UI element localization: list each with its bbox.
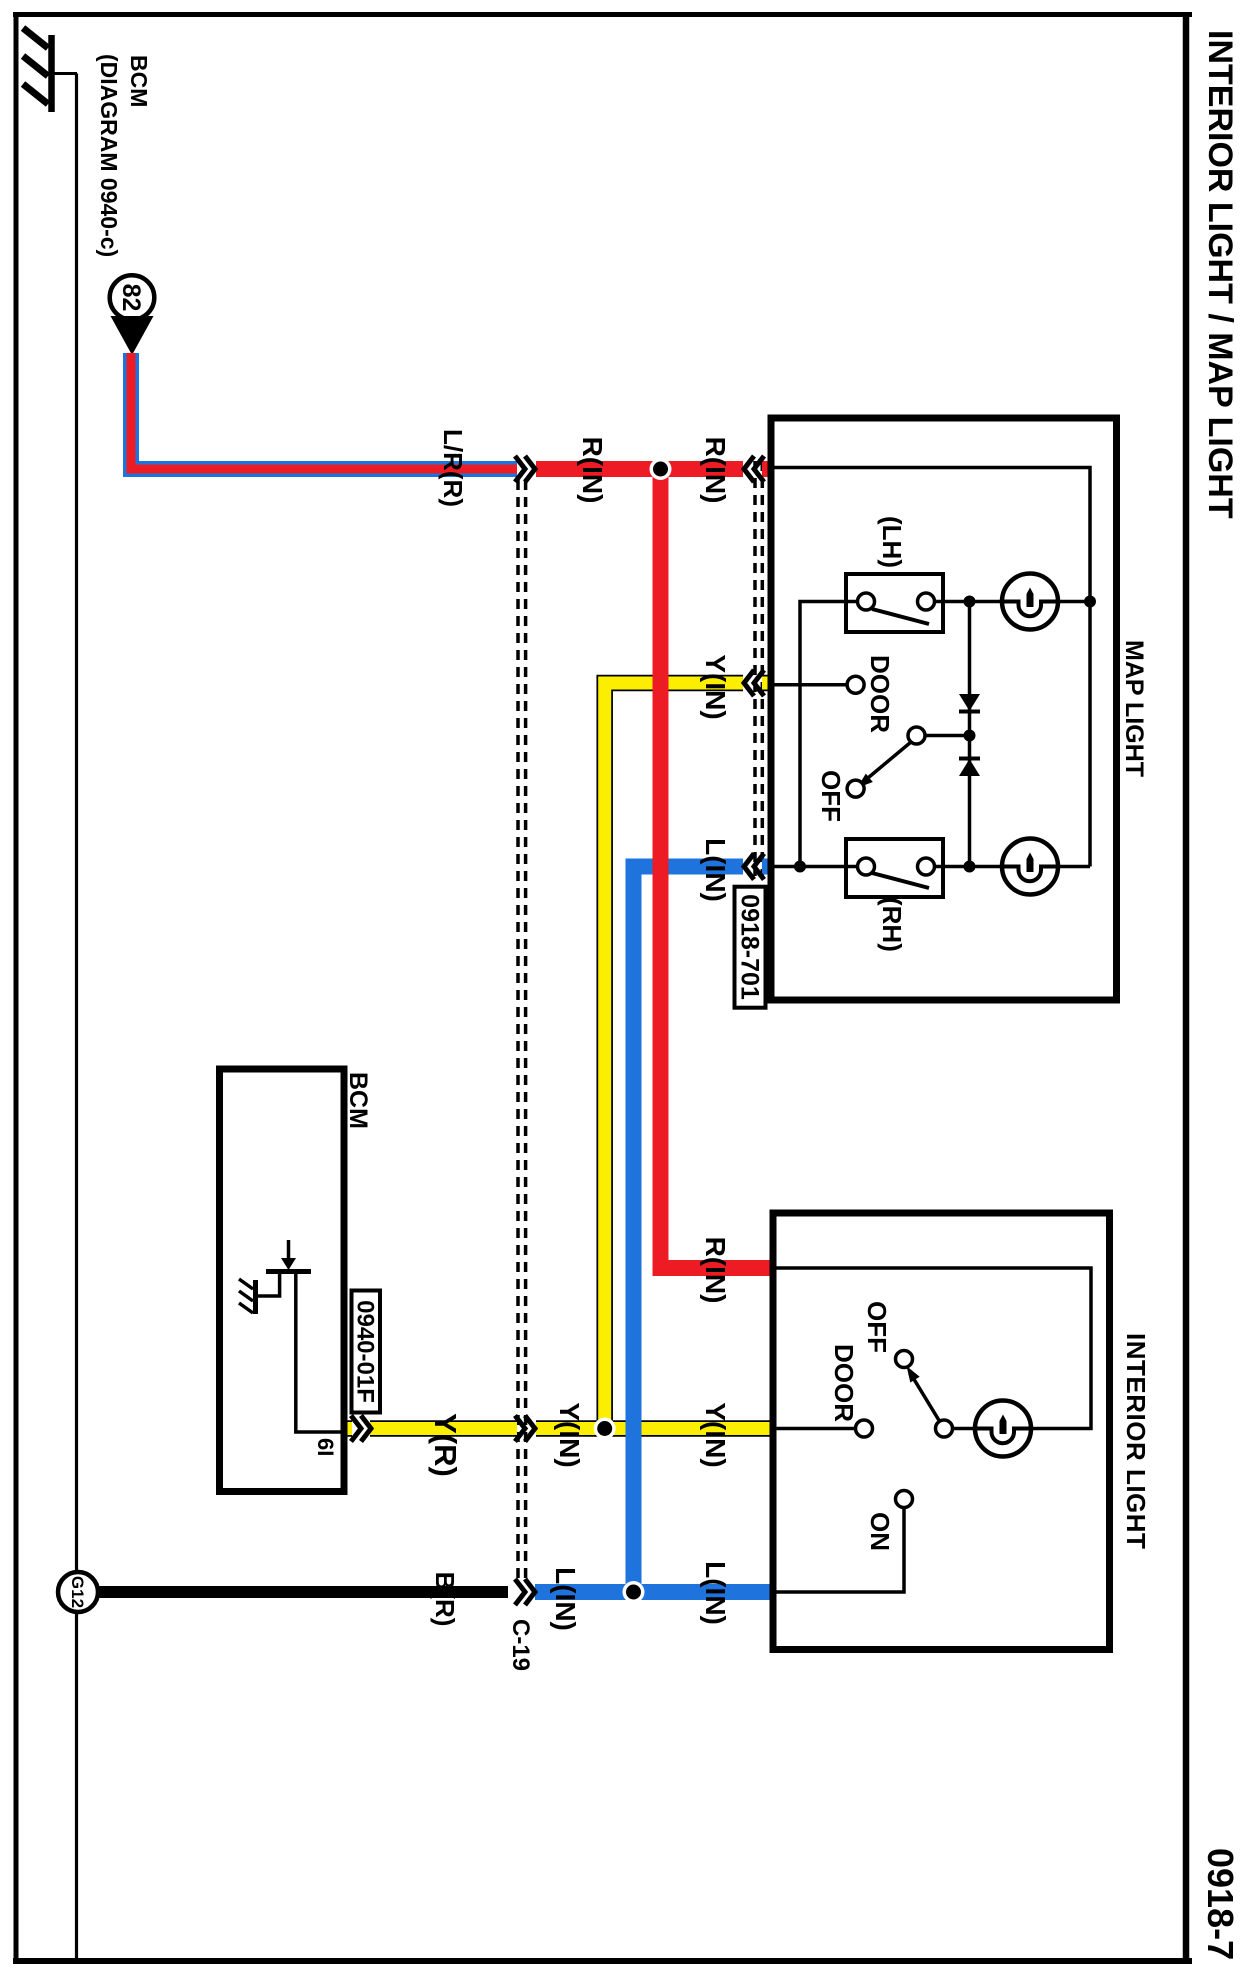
- svg-text:BCM: BCM: [126, 55, 152, 107]
- svg-text:(RH): (RH): [877, 897, 907, 952]
- node 82 circled pin number: [110, 275, 155, 320]
- svg-text:C-19: C-19: [507, 1619, 534, 1671]
- node junction dot on blue wire: [623, 1581, 645, 1603]
- diode D2 (cathode left, toward center): [959, 759, 980, 777]
- svg-text:L(IN): L(IN): [550, 1567, 581, 1631]
- wire R(IN) red branch to INTERIOR LIGHT box: [661, 469, 779, 1268]
- component box MAP LIGHT: [771, 418, 1117, 1000]
- border frame right edge: [13, 1958, 1192, 1964]
- svg-text:OFF: OFF: [862, 1301, 892, 1353]
- node G12 ground point circle: [58, 1572, 98, 1612]
- wire L(IN) blue branch to MAP LIGHT box: [634, 867, 773, 1593]
- wire internal: RH lamp branch: [775, 865, 1091, 869]
- connector chevron at BCM pin 6I on yellow wire: [351, 1416, 371, 1442]
- node junction dot on yellow wire: [594, 1418, 616, 1440]
- BCM internal output driver arrow and bar: [266, 1240, 311, 1272]
- component box INTERIOR LIGHT: [773, 1213, 1110, 1650]
- svg-text:L/R(R): L/R(R): [438, 429, 468, 507]
- contact DOOR (interior light): [777, 1420, 873, 1437]
- border frame title separator (top rule): [1183, 12, 1190, 1964]
- node dot diode line right: [964, 861, 976, 873]
- switch interior light common contact: [936, 1420, 953, 1437]
- svg-text:B(R): B(R): [430, 1572, 460, 1627]
- wire internal: diode link line: [968, 602, 972, 867]
- svg-text:6I: 6I: [313, 1438, 338, 1456]
- wire internal: LH lamp branch: [800, 602, 1090, 867]
- node dot diode line middle: [964, 730, 976, 742]
- svg-text:INTERIOR LIGHT / MAP LIGHT: INTERIOR LIGHT / MAP LIGHT: [1201, 30, 1239, 519]
- svg-text:Y(IN): Y(IN): [700, 1402, 731, 1467]
- wire L(IN) blue from C-19 to INTERIOR LIGHT box: [535, 1584, 778, 1600]
- ground G12 chassis ground symbol: [23, 28, 77, 112]
- connector C-19 boundary (double dashed line): [518, 480, 526, 1584]
- border frame bottom edge: [14, 12, 19, 1964]
- wire internal: R(IN) riser and top bus inside INTERIOR LIGHT: [777, 1268, 1092, 1429]
- svg-text:L(IN): L(IN): [700, 838, 731, 902]
- svg-text:MAP LIGHT: MAP LIGHT: [1120, 640, 1148, 777]
- wire ground bus (thin) from ground symbol to right border: [75, 74, 78, 1959]
- wire B(R) black from G12 to connector C-19: [96, 1586, 508, 1598]
- contact OFF (map light): [847, 780, 864, 797]
- wire L/R(R) blue/red from arrow 82 to connector C-19: [131, 353, 517, 469]
- svg-text:Y(IN): Y(IN): [554, 1402, 585, 1467]
- connector chevron C-19 on red wire: [515, 456, 535, 482]
- connector chevron C-19 on yellow wire: [515, 1416, 535, 1442]
- node junction dot on red wire: [650, 458, 672, 480]
- svg-text:OFF: OFF: [816, 770, 846, 822]
- contact DOOR (map light): [775, 676, 865, 693]
- label BCM (DIAGRAM 0940-c) source note: [96, 54, 152, 257]
- contact ON (interior light): [777, 1491, 913, 1593]
- connector label 0918-701: [735, 887, 766, 1008]
- svg-text:0918-7: 0918-7: [1200, 1848, 1241, 1960]
- node dot at LH lamp / top bus junction: [1084, 596, 1096, 608]
- diode D1 (cathode right, toward center): [959, 694, 980, 712]
- connector label 0940-01F: [352, 1291, 381, 1413]
- wire internal: R(IN) riser and top bus inside MAP LIGHT: [775, 468, 1091, 867]
- svg-text:G12: G12: [68, 1576, 87, 1608]
- svg-text:INTERIOR LIGHT: INTERIOR LIGHT: [1121, 1333, 1151, 1549]
- svg-text:(LH): (LH): [877, 516, 907, 568]
- svg-text:R(IN): R(IN): [700, 1237, 731, 1304]
- node dot at bottom link / RH branch junction: [794, 861, 806, 873]
- svg-text:R(IN): R(IN): [700, 437, 731, 504]
- wire internal BCM to pin 6I: [296, 1273, 341, 1432]
- switch RH door switch box: [846, 839, 943, 897]
- BCM internal ground symbol: [239, 1272, 280, 1314]
- switch map light mode common contact: [908, 727, 970, 744]
- svg-text:Y(IN): Y(IN): [700, 654, 731, 719]
- switch blade arrow toward OFF (interior light): [907, 1366, 941, 1422]
- switch blade arrow toward OFF: [857, 742, 911, 788]
- svg-text:DOOR: DOOR: [829, 1344, 859, 1422]
- svg-text:L(IN): L(IN): [700, 1561, 731, 1625]
- arrow from BCM pin 82 into wire: [111, 316, 154, 355]
- lamp bulb LH map light: [1002, 574, 1058, 630]
- switch LH door switch box: [846, 574, 943, 632]
- svg-text:0940-01F: 0940-01F: [352, 1300, 379, 1403]
- wire R(IN) red from C-19 up to MAP LIGHT box: [536, 461, 772, 477]
- wire Y(IN) yellow branch to MAP LIGHT box: [605, 683, 772, 1429]
- svg-text:82: 82: [117, 284, 145, 312]
- connector chevron at MAP LIGHT box on yellow wire: [744, 670, 764, 696]
- node dot diode line left: [964, 596, 976, 608]
- connector chevron at MAP LIGHT box on blue wire: [744, 854, 764, 880]
- lamp bulb RH map light: [1002, 839, 1058, 895]
- wire Y(R)/Y(IN) yellow from BCM pin 6I to INTERIOR LIGHT box: [342, 1420, 778, 1437]
- contact OFF (interior light): [896, 1351, 913, 1368]
- lamp bulb interior light: [975, 1401, 1031, 1457]
- svg-text:DOOR: DOOR: [865, 655, 895, 733]
- svg-text:0918-701: 0918-701: [736, 894, 764, 1000]
- svg-text:BCM: BCM: [344, 1072, 372, 1129]
- svg-text:R(IN): R(IN): [577, 437, 608, 504]
- connector 0918-701 boundary (double dashed line): [755, 461, 762, 876]
- border frame left edge: [13, 12, 1192, 17]
- svg-text:(DIAGRAM 0940-c): (DIAGRAM 0940-c): [96, 54, 122, 257]
- svg-text:ON: ON: [865, 1512, 895, 1551]
- connector chevron C-19 on black/blue wire: [515, 1579, 535, 1605]
- component box BCM: [220, 1069, 345, 1492]
- connector chevron at MAP LIGHT box on red wire: [744, 456, 764, 482]
- svg-text:Y(R): Y(R): [428, 1413, 463, 1477]
